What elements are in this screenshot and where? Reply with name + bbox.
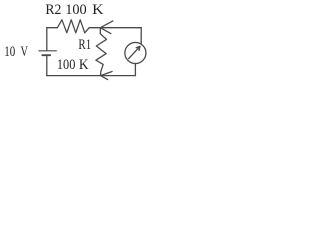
wire top-left segment: [47, 27, 58, 29]
svg-text:R1: R1: [78, 37, 91, 53]
wire right vertical to meter: [140, 28, 142, 44]
battery V1 short plate: [42, 54, 50, 56]
meter M1 needle: [129, 46, 140, 58]
wire left upper (battery top lead): [46, 28, 48, 51]
meter M1 body: [125, 42, 146, 63]
svg-text:V: V: [21, 44, 29, 60]
node A arrow (top junction): [100, 21, 113, 34]
svg-text:K: K: [79, 57, 89, 73]
svg-text:R2: R2: [45, 2, 61, 18]
resistor R1: [96, 28, 107, 76]
wire top-right segment: [100, 27, 141, 29]
wire left lower (battery bottom lead): [46, 56, 48, 76]
svg-text:100: 100: [57, 57, 76, 73]
wire top-middle segment: [89, 27, 100, 29]
meter M1 needle arrowhead: [136, 46, 140, 50]
resistor R2: [57, 20, 89, 33]
svg-text:100: 100: [65, 2, 87, 18]
wire meter bottom lead: [134, 64, 136, 76]
wire bottom segment: [47, 75, 136, 77]
node B arrow (bottom junction): [101, 72, 113, 80]
battery V1 long plate: [39, 50, 56, 52]
svg-text:K: K: [92, 2, 104, 18]
svg-text:10: 10: [4, 44, 15, 60]
